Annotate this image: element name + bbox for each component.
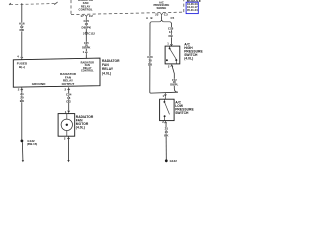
HP switch contacts and blade (169, 46, 171, 48)
svg-text:SWITCH: SWITCH (175, 111, 189, 115)
wire label C25 18 DB/PK (lower) (82, 41, 90, 50)
svg-text:G132: G132 (170, 159, 178, 163)
wire relay output C24 18 DG (68, 89, 70, 111)
connector terminal Y (PDC pin 1) (85, 52, 87, 55)
svg-text:DB/PL: DB/PL (170, 83, 178, 87)
wire A/C sense stub (161, 16, 163, 19)
svg-text:RD: RD (20, 28, 25, 32)
connector terminal Y (LP pin 1) + drop from junction (164, 93, 166, 100)
svg-text:C5: C5 (171, 16, 175, 20)
svg-text:C3: C3 (164, 12, 168, 16)
connector terminal Y (relay output pin) (68, 87, 70, 90)
label A/C HIGH PRESSURE SWITCH (4.0L) (184, 43, 203, 61)
wire label A16 12 RD (19, 21, 25, 32)
svg-text:B(+): B(+) (19, 65, 25, 69)
PCM label: RADIATOR FAN RELAY CONTROL (78, 0, 93, 12)
label A/C LOW PRESSURE SWITCH (175, 100, 194, 115)
connector terminal Y (motor pin 1) (68, 111, 70, 114)
blue stamp box border (186, 2, 198, 13)
svg-text:(4.0L): (4.0L) (184, 56, 193, 60)
wire continuation below ground dot (21, 142, 24, 160)
svg-text:DB/PK: DB/PK (82, 46, 90, 50)
wire fused B(+) feed (left vertical) (21, 3, 23, 57)
connector terminal Y (motor pin 2) (67, 136, 69, 139)
svg-text:CONTROL: CONTROL (79, 8, 93, 12)
A/C high pressure switch box (165, 46, 180, 64)
svg-text:BK: BK (20, 99, 25, 103)
connector terminal Y (C2) (85, 15, 87, 18)
ground splice dot G132 (21, 140, 24, 143)
wire radiator fan relay control (middle vertical) (85, 18, 87, 51)
wire motor ground continuation (68, 138, 70, 161)
svg-text:CONTROL: CONTROL (81, 70, 94, 73)
svg-text:(4.0L): (4.0L) (102, 71, 111, 75)
svg-text:C112: C112 (88, 31, 95, 35)
svg-text:(4.0L): (4.0L) (76, 125, 85, 129)
svg-text:DB: DB (148, 62, 152, 66)
ground dot G132 (right) (165, 159, 168, 162)
svg-text:(8W-15): (8W-15) (27, 142, 37, 146)
connector terminal Y (HP pin 1) (170, 44, 172, 46)
svg-text:05-01-24: 05-01-24 (187, 8, 198, 12)
PCM dashed box (bottom-left corner, bottom edge, right edge) (71, 0, 184, 15)
connector terminal Y (HP pin 2) (171, 64, 173, 67)
svg-text:SENSE: SENSE (157, 6, 167, 10)
svg-text:DG: DG (66, 100, 71, 104)
wire HP switch to junction (172, 65, 178, 92)
svg-text:DB: DB (168, 34, 172, 38)
svg-text:GROUND: GROUND (32, 82, 46, 86)
radiator fan motor box (58, 114, 75, 137)
connector terminal Y (PDC top-left pin) (21, 57, 23, 60)
PDC box (power distribution center) (13, 58, 100, 87)
wire left branch C20 18 DB (150, 23, 178, 93)
splice split to two branches (150, 19, 171, 23)
PDC label RADIATOR FAN RELAY CONTROL (internal) (81, 61, 95, 72)
PCM label: A/C PRESSURE SENSE (154, 0, 170, 10)
svg-text:17: 17 (80, 14, 84, 18)
svg-text:23: 23 (155, 12, 159, 16)
svg-text:A: A (146, 16, 148, 20)
motor circle symbol (61, 119, 72, 130)
connector terminal Y (bottom-left, mirrored) (21, 87, 23, 90)
svg-text:DB/PK: DB/PK (82, 25, 92, 29)
wire LP switch to ground (165, 122, 167, 160)
svg-text:OUTPUT: OUTPUT (62, 82, 75, 86)
wire ground Z1 20 BK (21, 89, 23, 140)
connector terminal Y (LP pin 2) (164, 121, 166, 124)
wire right branch C18 18 DB (170, 23, 172, 44)
svg-text:B: B (151, 16, 153, 20)
label RADIATOR FAN MOTOR (4.0L) (76, 115, 94, 129)
PDC label RADIATOR FAN RELAY OUTPUT (internal) (60, 72, 77, 86)
connector terminal Y (C3) (160, 13, 162, 16)
A/C low pressure switch box (160, 99, 175, 120)
label RADIATOR FAN RELAY (4.0L) right of PDC (102, 59, 120, 76)
LP switch contacts and blade (163, 99, 165, 101)
svg-text:C2: C2 (89, 14, 93, 18)
wire label C25 18 DB/PK (upper) (82, 19, 92, 29)
PDC label FUSED B(+) (17, 62, 28, 69)
cut/tear dashed line top-left (9, 2, 57, 5)
